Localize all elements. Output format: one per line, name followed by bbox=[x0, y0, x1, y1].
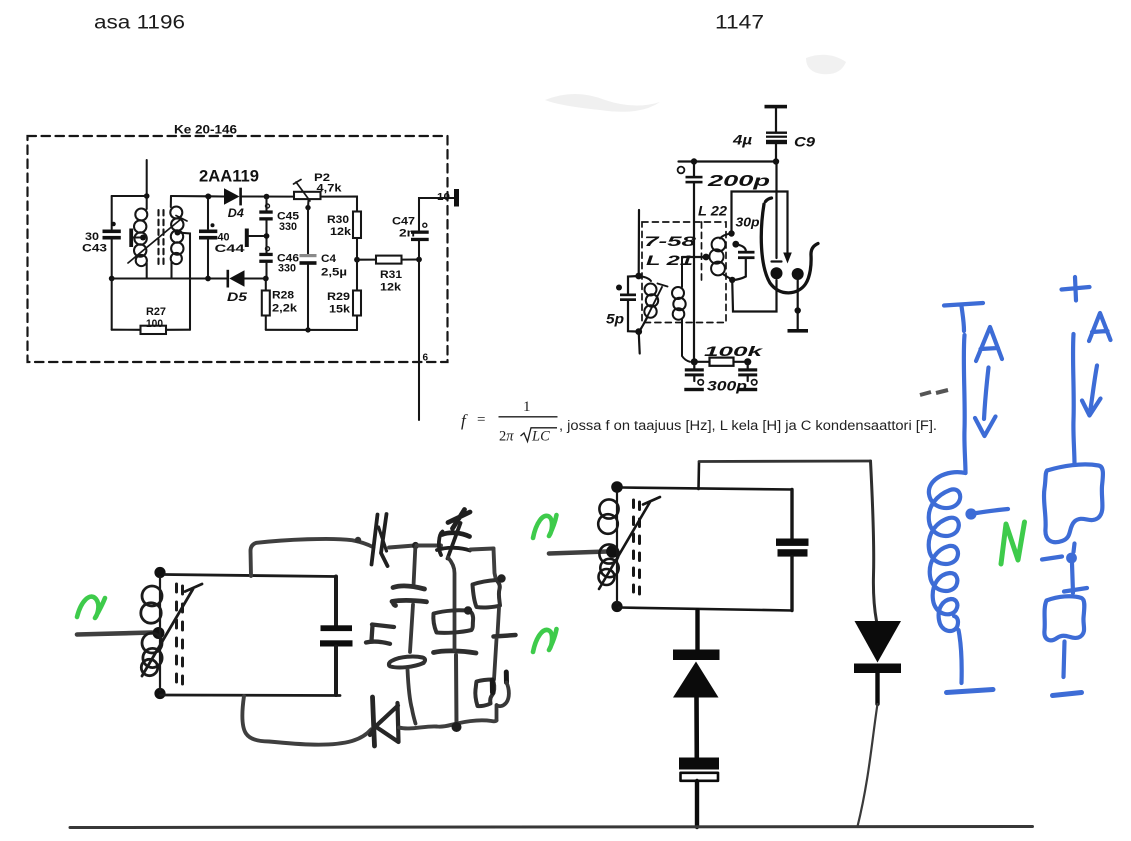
tap symbol into primary bbox=[129, 229, 146, 248]
svg-text:=: = bbox=[477, 412, 485, 428]
anode arrowhead bbox=[783, 253, 792, 264]
capacitor 30p bbox=[733, 244, 755, 280]
wire D5 to R28 node bbox=[245, 279, 266, 291]
diode D4 (2AA119) bbox=[224, 188, 242, 206]
wire Dm to Ce bbox=[694, 698, 699, 758]
blue wire to ground right bbox=[1064, 642, 1065, 678]
wire 5p branch bbox=[628, 276, 639, 332]
node 5p outer dot bbox=[616, 285, 622, 291]
node 100k left bbox=[691, 358, 698, 365]
svg-text:30p: 30p bbox=[736, 216, 760, 230]
core dashes left circuit bbox=[177, 584, 183, 684]
blue wire dot down bbox=[1072, 564, 1073, 594]
node C44 small dot bbox=[211, 223, 215, 227]
RB2 dark dash inner bbox=[490, 680, 495, 693]
node C47 bottom bbox=[416, 257, 422, 263]
svg-text:330: 330 bbox=[279, 221, 297, 233]
wire node to trimmer bbox=[417, 544, 442, 548]
node RB0 top right bbox=[464, 606, 472, 614]
diode Db triangle bbox=[370, 703, 399, 742]
300p bypass right bbox=[738, 362, 758, 391]
resistor 100k bbox=[697, 358, 745, 366]
svg-text:1147: 1147 bbox=[715, 13, 764, 34]
wire grid tap bbox=[682, 256, 706, 258]
ring C45 bbox=[266, 204, 270, 208]
lead from trimmer diag to Cc bbox=[448, 558, 455, 651]
svg-text:C9: C9 bbox=[794, 134, 815, 150]
svg-text:, jossa f on taajuus [Hz], L k: , jossa f on taajuus [Hz], L kela [H] ja… bbox=[559, 418, 937, 433]
blue coil bbox=[929, 472, 966, 631]
tuning arrow middle circuit bbox=[599, 497, 660, 589]
wire R28 lower lead bbox=[265, 316, 267, 330]
capacitor C45 bbox=[259, 210, 272, 220]
transformer core (dashed) bbox=[159, 210, 164, 268]
resistor R29 bbox=[353, 291, 361, 316]
node C4 bottom bbox=[305, 327, 310, 332]
resistor R27 bbox=[141, 326, 167, 334]
tank rectangle right side lower bbox=[334, 647, 338, 696]
wire rect to bridge bottom bbox=[242, 696, 371, 745]
wire Dr to ground bbox=[858, 704, 878, 827]
wire right diode upper lead bbox=[871, 461, 877, 621]
trimmer X mark bbox=[448, 510, 470, 529]
svg-text:2,2k: 2,2k bbox=[272, 303, 297, 315]
diode Da bar1 bbox=[372, 515, 378, 565]
node C43 top bbox=[111, 222, 116, 227]
svg-text:5p: 5p bbox=[606, 312, 624, 327]
blue junction dot right bbox=[1066, 553, 1077, 564]
svg-text:R31: R31 bbox=[380, 269, 402, 281]
tube electrode dot left bbox=[771, 267, 783, 279]
wire C43 lower lead bbox=[111, 240, 113, 279]
wire R29 top lead bbox=[356, 260, 358, 291]
svg-text:R29: R29 bbox=[327, 291, 350, 303]
svg-text:4,7k: 4,7k bbox=[317, 183, 342, 195]
node R30 R31 junction bbox=[354, 257, 360, 263]
svg-text:C44: C44 bbox=[215, 243, 245, 255]
blue box lower right bbox=[1044, 596, 1084, 640]
wire R29 lower lead bbox=[356, 316, 358, 331]
node cathode ground bbox=[795, 307, 801, 313]
wire output line 6 bbox=[418, 260, 420, 421]
tank2 rectangle right side upper bbox=[790, 490, 793, 539]
wire bottom-right rail bbox=[266, 329, 357, 331]
blue letter A right bbox=[1089, 313, 1111, 341]
svg-text:12k: 12k bbox=[330, 226, 351, 238]
blue ground bar left bbox=[947, 690, 994, 693]
node after Da bbox=[412, 542, 419, 549]
transformer core tuning arrow bbox=[128, 216, 187, 264]
tube electrode dot right bbox=[792, 268, 804, 280]
node bottom-left rail bbox=[109, 276, 115, 282]
node 30p top bbox=[732, 241, 739, 248]
node input tap left bbox=[153, 627, 165, 639]
capacitor Cc stem bbox=[454, 655, 459, 726]
terminal bar top (1147) bbox=[765, 105, 788, 109]
node bottom rail bbox=[452, 722, 462, 732]
svg-text:C47: C47 bbox=[392, 216, 415, 228]
capacitor Ca plate1 bbox=[393, 586, 425, 589]
wire R27 rail bbox=[112, 329, 190, 331]
node RB1 top right bbox=[497, 574, 505, 582]
diode Dm bar bbox=[673, 650, 720, 661]
blue box upper right bbox=[1044, 464, 1103, 542]
resistor R31 bbox=[376, 256, 402, 264]
svg-text:6: 6 bbox=[423, 353, 429, 364]
wire C4 lower lead bbox=[307, 265, 309, 330]
P2 arrow bbox=[294, 180, 311, 202]
svg-text:D4: D4 bbox=[228, 208, 245, 220]
svg-text:4µ: 4µ bbox=[732, 132, 752, 148]
wire trimmer to right branch bbox=[471, 549, 494, 550]
trimmer plate1 bbox=[442, 533, 470, 537]
svg-text:10: 10 bbox=[437, 192, 451, 203]
node D4 anode side bbox=[206, 194, 212, 200]
module border Ke 20-146 (dashed box) bbox=[28, 136, 448, 362]
terminal ring hv rail bbox=[678, 167, 685, 174]
svg-text:2π: 2π bbox=[499, 429, 514, 445]
capacitor Ce plate2 (hollow) bbox=[681, 773, 719, 781]
tank rectangle top wire bbox=[165, 575, 336, 577]
tube envelope bbox=[761, 198, 818, 293]
wire L21 top stub bbox=[638, 210, 640, 276]
wire junction to R31 bbox=[357, 259, 376, 261]
scribble box RB2 bbox=[475, 680, 494, 707]
wire C46 lower lead bbox=[265, 263, 267, 279]
green source mark left bbox=[77, 597, 105, 618]
ground bar tube bbox=[788, 329, 809, 333]
lead node down to Ca bbox=[414, 548, 416, 586]
svg-text:30: 30 bbox=[85, 231, 99, 243]
wire C47 to terminal 10 bbox=[419, 198, 454, 231]
tank2 rectangle right side lower bbox=[790, 557, 793, 611]
lead RB1 down bbox=[498, 608, 500, 635]
node P2 wiper bbox=[305, 205, 310, 210]
wire Ce to ground bbox=[695, 781, 699, 827]
svg-text:300p: 300p bbox=[707, 378, 748, 394]
lead stub down to RB2 bbox=[494, 639, 497, 680]
dashed divider in unit box bbox=[701, 222, 703, 280]
node R28 top bbox=[263, 276, 269, 282]
svg-text:40: 40 bbox=[218, 232, 230, 244]
wire top rail with D4 bbox=[208, 195, 294, 197]
green output mark scribble bbox=[533, 629, 557, 652]
trimmer plate2 bbox=[437, 532, 470, 556]
dashed unit box 7-58 bbox=[642, 222, 726, 323]
resistor R28 bbox=[262, 291, 270, 316]
wire 200p long lead down bbox=[693, 183, 695, 361]
blue letter A left bbox=[976, 327, 1002, 361]
scan smudge top right bbox=[806, 55, 846, 74]
wire Dm upper lead bbox=[695, 611, 699, 650]
tank2 capacitor plate2 bbox=[778, 549, 808, 556]
node 100k right bbox=[744, 358, 751, 365]
diode Da diagonal bbox=[379, 527, 387, 551]
svg-text:100: 100 bbox=[146, 318, 163, 330]
blue wire left vertical bbox=[964, 335, 966, 473]
potentiometer P2 bbox=[294, 192, 321, 199]
tank2 rectangle top wire bbox=[622, 488, 792, 490]
wire C43 upper lead bbox=[111, 196, 113, 229]
blue arrow left bbox=[975, 368, 996, 437]
wire P2 wiper to C4 bbox=[307, 200, 310, 254]
svg-text:1: 1 bbox=[523, 399, 531, 415]
RB2 dark dash outer bbox=[504, 672, 509, 683]
tank capacitor plate1 bbox=[321, 625, 353, 631]
wire antenna stub top bbox=[146, 160, 148, 196]
svg-text:f: f bbox=[461, 411, 468, 430]
ring C46 bbox=[266, 247, 270, 251]
ground stub tube bbox=[797, 311, 799, 330]
lead lens down to diode Db bbox=[408, 670, 416, 724]
wire Db to bottom rail bbox=[399, 724, 457, 729]
capacitor C46 bbox=[259, 253, 272, 263]
hand coil left circuit bbox=[141, 577, 162, 690]
wire bottom rail left bbox=[112, 277, 227, 279]
wire left column down to R27 rail bbox=[111, 279, 113, 330]
scribble box RB1 bbox=[473, 580, 501, 608]
tuning arrow left circuit bbox=[142, 584, 202, 676]
svg-text:asa 1196: asa 1196 bbox=[94, 13, 185, 34]
wire anode loop top bbox=[732, 192, 788, 254]
node coil bottom middle bbox=[611, 601, 622, 612]
wire C9 lower lead bbox=[775, 144, 777, 161]
node coil top left bbox=[154, 567, 165, 578]
lens shape below Ca bbox=[389, 657, 425, 668]
svg-text:R28: R28 bbox=[272, 290, 294, 302]
svg-text:330: 330 bbox=[278, 263, 296, 275]
node L21 top bbox=[635, 273, 642, 280]
capacitor C43 bbox=[103, 230, 121, 240]
tank capacitor plate2 bbox=[320, 640, 353, 646]
wire cathode to ground bbox=[797, 274, 799, 311]
blue wire right vertical bbox=[1073, 334, 1074, 464]
node coil top middle bbox=[611, 481, 623, 493]
diode Dr triangle bbox=[855, 621, 902, 663]
wire Da to node bbox=[389, 546, 415, 548]
wire C44 upper lead bbox=[207, 196, 209, 229]
node primary top bbox=[144, 193, 150, 199]
tank2 rectangle bottom wire bbox=[619, 608, 792, 611]
node L22 grid tap bbox=[703, 254, 710, 261]
blue arrow right bbox=[1082, 366, 1101, 416]
capacitor 5p bbox=[620, 294, 636, 302]
wire secondary tap to right column bbox=[178, 233, 191, 330]
formula f = 1/(2 pi sqrt LC) bbox=[461, 399, 937, 445]
tank rectangle right side upper bbox=[334, 577, 338, 627]
svg-text:L 21: L 21 bbox=[646, 253, 693, 268]
blue plus right bbox=[1062, 277, 1090, 301]
output stub bbox=[494, 635, 516, 637]
input wire middle circuit bbox=[549, 552, 607, 554]
right branch vertical upper bbox=[494, 549, 497, 581]
node coil bottom left bbox=[154, 688, 165, 699]
blue antenna T left bbox=[944, 303, 983, 331]
inductor L21 bbox=[639, 276, 659, 332]
svg-text:D5: D5 bbox=[227, 292, 248, 304]
capacitor C44 bbox=[199, 230, 217, 240]
node L22 bottom bbox=[729, 277, 735, 283]
node D4 cathode side bbox=[264, 194, 270, 200]
wire R31 to C47 node bbox=[402, 258, 420, 260]
trimmer diagonal bbox=[448, 523, 461, 559]
wire C44 lower lead bbox=[207, 240, 209, 279]
svg-text:LC: LC bbox=[531, 429, 550, 445]
transformer secondary winding bbox=[170, 196, 183, 279]
bottom rail scribble bbox=[457, 720, 497, 723]
wire cathode link bbox=[732, 280, 776, 312]
diode Da bar2 bbox=[381, 514, 388, 566]
wire C45 to C46 bbox=[265, 221, 267, 253]
L21 tuning arrow bbox=[640, 284, 668, 332]
node secondary tap bbox=[175, 230, 181, 236]
svg-text:R30: R30 bbox=[327, 214, 349, 226]
wire top-left to C43 bbox=[112, 195, 147, 197]
capacitor C47 bbox=[411, 231, 429, 242]
transformer primary winding bbox=[134, 196, 147, 279]
svg-text:100k: 100k bbox=[704, 343, 764, 359]
capacitor C9 bbox=[766, 132, 787, 145]
wire P2 top rail bbox=[294, 197, 357, 212]
scan smudge marks right of formula bbox=[920, 390, 948, 395]
RB2 right hook bbox=[497, 683, 509, 720]
blue ground bar right bbox=[1053, 693, 1082, 696]
wire R30 lower lead bbox=[356, 238, 358, 260]
capacitor C4 bbox=[300, 254, 317, 265]
input wire left circuit bbox=[77, 633, 152, 635]
node on bridge top wire bbox=[355, 537, 361, 543]
hand coil middle circuit bbox=[598, 491, 619, 603]
blue crossbar small bbox=[1064, 588, 1087, 592]
blue coil tap dot bbox=[965, 508, 976, 519]
green letter N bbox=[1001, 522, 1025, 564]
capacitor 200p bbox=[686, 162, 703, 184]
node L21 bottom bbox=[635, 328, 642, 335]
wire C45 upper lead bbox=[265, 197, 267, 211]
resistor R30 bbox=[353, 212, 361, 239]
svg-text:L 22: L 22 bbox=[698, 204, 728, 219]
wire top link to right diode bbox=[699, 460, 871, 463]
node input tap middle bbox=[606, 545, 619, 558]
svg-text:2n: 2n bbox=[399, 228, 415, 240]
svg-text:R27: R27 bbox=[146, 306, 166, 318]
node 200p top bbox=[691, 158, 697, 164]
diode Db bar bbox=[373, 697, 375, 746]
blue coil tap line bbox=[977, 509, 1009, 513]
node C44 top bbox=[205, 194, 211, 200]
blue link box to dot bbox=[1074, 544, 1075, 553]
svg-text:7-58: 7-58 bbox=[644, 234, 697, 249]
wire branch up from tank2 bbox=[697, 463, 700, 490]
capacitor Cc top bar bbox=[434, 651, 477, 653]
wire C47 lower lead bbox=[418, 241, 420, 259]
node C44 bottom bbox=[205, 276, 211, 282]
diode Dr bar bbox=[854, 664, 901, 674]
capacitor Ca plate2 bbox=[392, 600, 427, 605]
node AGC tap bbox=[264, 233, 270, 239]
svg-text:2,5µ: 2,5µ bbox=[321, 267, 347, 279]
svg-text:12k: 12k bbox=[380, 282, 401, 294]
wire L21 bottom stub bbox=[639, 332, 640, 354]
diode Dm triangle bbox=[673, 662, 719, 698]
ring C47 bbox=[423, 223, 427, 227]
flag capacitor left (RB-left) bbox=[366, 625, 394, 644]
svg-text:C4: C4 bbox=[321, 253, 336, 265]
diode Dr lower stub bbox=[875, 673, 879, 704]
terminal 10 bar bbox=[454, 189, 459, 207]
wire rect to bridge top bbox=[251, 539, 374, 576]
core dashes middle circuit bbox=[634, 500, 640, 594]
node C9 bottom bbox=[773, 158, 779, 164]
green source mark middle bbox=[533, 515, 557, 538]
tank2 capacitor plate1 bbox=[776, 539, 809, 546]
tank rectangle bottom wire bbox=[160, 694, 340, 697]
wire hv rail bbox=[679, 160, 777, 162]
300p bypass left bbox=[684, 362, 704, 391]
tap T-bar to C45/C46 node bbox=[245, 229, 264, 248]
wire terminal to C9 bbox=[775, 108, 777, 131]
svg-text:15k: 15k bbox=[329, 304, 350, 316]
diode D5 bbox=[227, 270, 245, 288]
svg-text:200p: 200p bbox=[706, 173, 770, 190]
svg-text:Ke 20-146: Ke 20-146 bbox=[174, 125, 237, 137]
lead Ca down bbox=[410, 605, 413, 653]
coupling winding grid bbox=[672, 257, 690, 362]
scribble box RB0 around lead bbox=[433, 610, 473, 633]
scan smudge top middle bbox=[545, 94, 660, 112]
tube grid line bbox=[772, 162, 782, 262]
wire secondary top to C44 bbox=[171, 195, 208, 197]
blue tick below box bbox=[1042, 557, 1062, 560]
inductor L22 bbox=[709, 234, 732, 280]
svg-text:2AA119: 2AA119 bbox=[199, 168, 259, 186]
ground rail bbox=[70, 827, 1033, 828]
svg-text:C43: C43 bbox=[82, 243, 107, 255]
node L22 top bbox=[728, 230, 734, 236]
blue coil bottom stub bbox=[959, 630, 962, 683]
capacitor Ce plate1 bbox=[679, 758, 719, 770]
